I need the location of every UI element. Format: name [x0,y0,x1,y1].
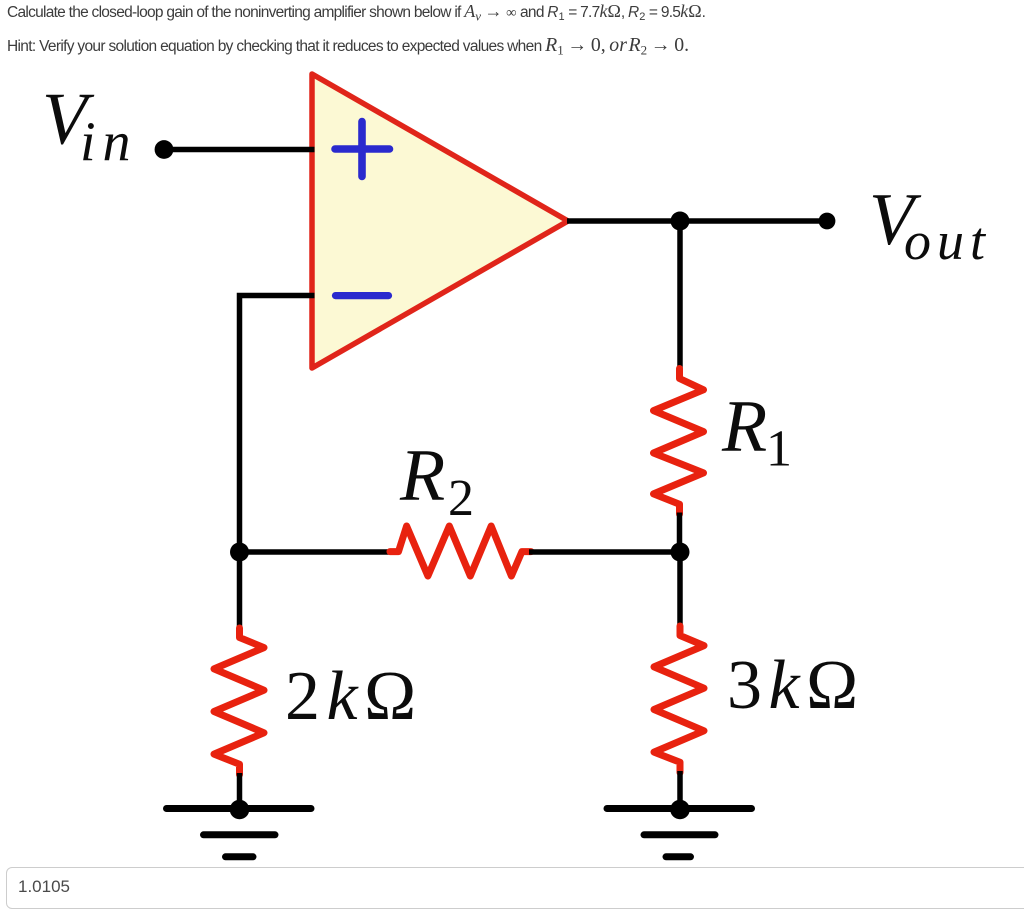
wire - input to left column [240,296,315,630]
node Vout terminal dot [819,213,836,230]
wire op-amp output to Vout [567,218,827,224]
label Vin [42,79,138,174]
answer input box [6,867,1024,909]
node output junction [671,212,690,231]
question line 2 (hint) [7,34,689,59]
answer text 1.0105 [18,877,70,897]
node middle junction right [671,543,690,562]
wire right junction down to 3k resistor [677,552,683,627]
wire Vin to + input [164,147,315,153]
svg-text:R: R [399,435,445,517]
op-amp U1 [312,74,568,368]
resistor 2k [214,628,264,775]
question line 1 [7,1,705,25]
resistor 3k [654,626,704,773]
wire 2k resistor to ground [237,773,243,808]
wire R2 to right junction [529,549,680,555]
ground left [167,800,312,857]
wire R1 to middle junction [677,513,683,557]
wire output junction down to R1 [677,221,683,371]
svg-text:1: 1 [766,421,792,478]
label R2 [399,435,474,527]
svg-text:2kΩ: 2kΩ [285,658,423,735]
svg-text:2: 2 [448,470,474,527]
node middle junction left [230,543,249,562]
op-amp + input pin [335,122,390,177]
label R1 [721,386,792,478]
wire left junction to R2 [240,549,393,555]
svg-text:out: out [904,211,991,271]
wire 3k resistor to ground [677,771,683,808]
label Vout [869,179,991,271]
svg-text:R: R [721,386,767,468]
node Vin terminal dot [155,140,174,159]
svg-text:3kΩ: 3kΩ [727,647,865,724]
svg-text:in: in [80,112,138,174]
ground right [607,800,752,857]
op-amp - input pin [336,292,389,299]
resistor R1 [654,369,704,515]
resistor R2 [390,526,531,576]
